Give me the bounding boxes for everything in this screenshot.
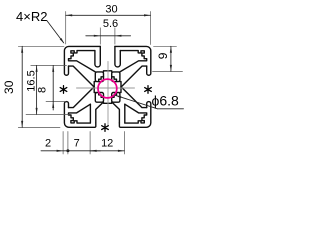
dim 9: extension lines bbox=[154, 45, 177, 47]
dim 7: line, dot terminator bbox=[63, 150, 90, 152]
outer contour bottom-right (mirrored) bbox=[119, 102, 150, 128]
dim 30 left: extension lines bbox=[18, 45, 64, 47]
BL corner cavity with serration bbox=[69, 104, 91, 123]
svg-text:2: 2 bbox=[45, 138, 51, 150]
asterisk bottom slot bbox=[102, 124, 109, 132]
dim 12: line with arrow bbox=[90, 150, 124, 152]
leader phi6.8: line and arrow bbox=[115, 95, 158, 109]
hub left edge bbox=[94, 82, 95, 93]
dim 7: outside arrow at right bbox=[90, 150, 100, 152]
dim 8: extension line bottom bbox=[46, 101, 66, 103]
asterisk left slot bbox=[60, 86, 67, 94]
vertical centerline bbox=[107, 62, 109, 127]
outer contour top-right (mirrored) bbox=[115, 46, 151, 75]
dim 5.6: extension lines bbox=[99, 28, 101, 44]
dim 2: line with outside arrow bbox=[41, 150, 63, 152]
BR corner cavity with serration (mirrored) bbox=[125, 104, 147, 123]
SE pocket bbox=[112, 93, 120, 103]
dim 8: dimension line with arrows bbox=[52, 65, 54, 101]
svg-text:30: 30 bbox=[105, 4, 117, 16]
svg-text:4×R2: 4×R2 bbox=[16, 9, 47, 24]
dim 5.6: dimension line with outside arrows bbox=[86, 35, 131, 37]
upper lip underside and NE web lower edge (mirrored) bbox=[121, 66, 147, 87]
svg-text:30: 30 bbox=[2, 80, 16, 94]
lower lip top and SE web upper edge (mirrored) bbox=[121, 87, 147, 108]
dim 30 top: dimension line with arrows bbox=[66, 14, 151, 16]
outer contour bottom-left bbox=[64, 102, 95, 128]
dim 16.5: dimension line with arrows bbox=[36, 65, 38, 114]
horizontal centerline bbox=[77, 87, 135, 89]
svg-text:ϕ6.8: ϕ6.8 bbox=[152, 93, 180, 109]
dim 30 top: extension lines bbox=[65, 12, 67, 45]
dim 16.5: extension lines bbox=[31, 64, 67, 66]
SW pocket tooth bbox=[99, 93, 104, 98]
hub right edge bbox=[120, 82, 121, 93]
top slot right lip bar (mirrored) bbox=[115, 46, 120, 67]
TR corner cavity with serration (mirrored) bbox=[120, 51, 147, 72]
hub top edge bbox=[104, 71, 112, 72]
top slot left lip bar bbox=[95, 46, 100, 67]
NW pocket bbox=[95, 72, 103, 82]
dims bottom: extension lines bbox=[62, 132, 64, 155]
SE pocket tooth bbox=[112, 93, 117, 98]
svg-text:5.6: 5.6 bbox=[103, 18, 118, 30]
center hole phi6.8 (magenta) bbox=[98, 79, 117, 98]
svg-text:16.5: 16.5 bbox=[25, 70, 37, 91]
bottom slot left bar bbox=[90, 102, 103, 123]
TL corner cavity with serration bbox=[69, 51, 96, 72]
lower lip top and SW web upper edge bbox=[69, 87, 95, 108]
svg-text:8: 8 bbox=[37, 87, 49, 93]
svg-text:12: 12 bbox=[101, 138, 113, 150]
leader 4xR2: leader line and arrow bbox=[47, 21, 64, 43]
NE pocket tooth bbox=[112, 77, 117, 82]
outer contour top-left bbox=[64, 46, 100, 75]
dim 30 left: dimension line with arrows bbox=[21, 46, 23, 127]
dim 9: dimension line with arrows bbox=[170, 46, 172, 71]
svg-text:9: 9 bbox=[156, 52, 170, 59]
hub bottom edge bbox=[104, 102, 112, 103]
asterisk right slot bbox=[145, 86, 152, 94]
bottom slot right bar (mirrored) bbox=[112, 102, 125, 123]
upper lip underside and NW web lower edge bbox=[69, 66, 95, 87]
SW pocket bbox=[95, 93, 103, 103]
svg-text:7: 7 bbox=[74, 138, 80, 150]
NW pocket tooth bbox=[99, 77, 104, 82]
NE pocket bbox=[112, 72, 120, 82]
